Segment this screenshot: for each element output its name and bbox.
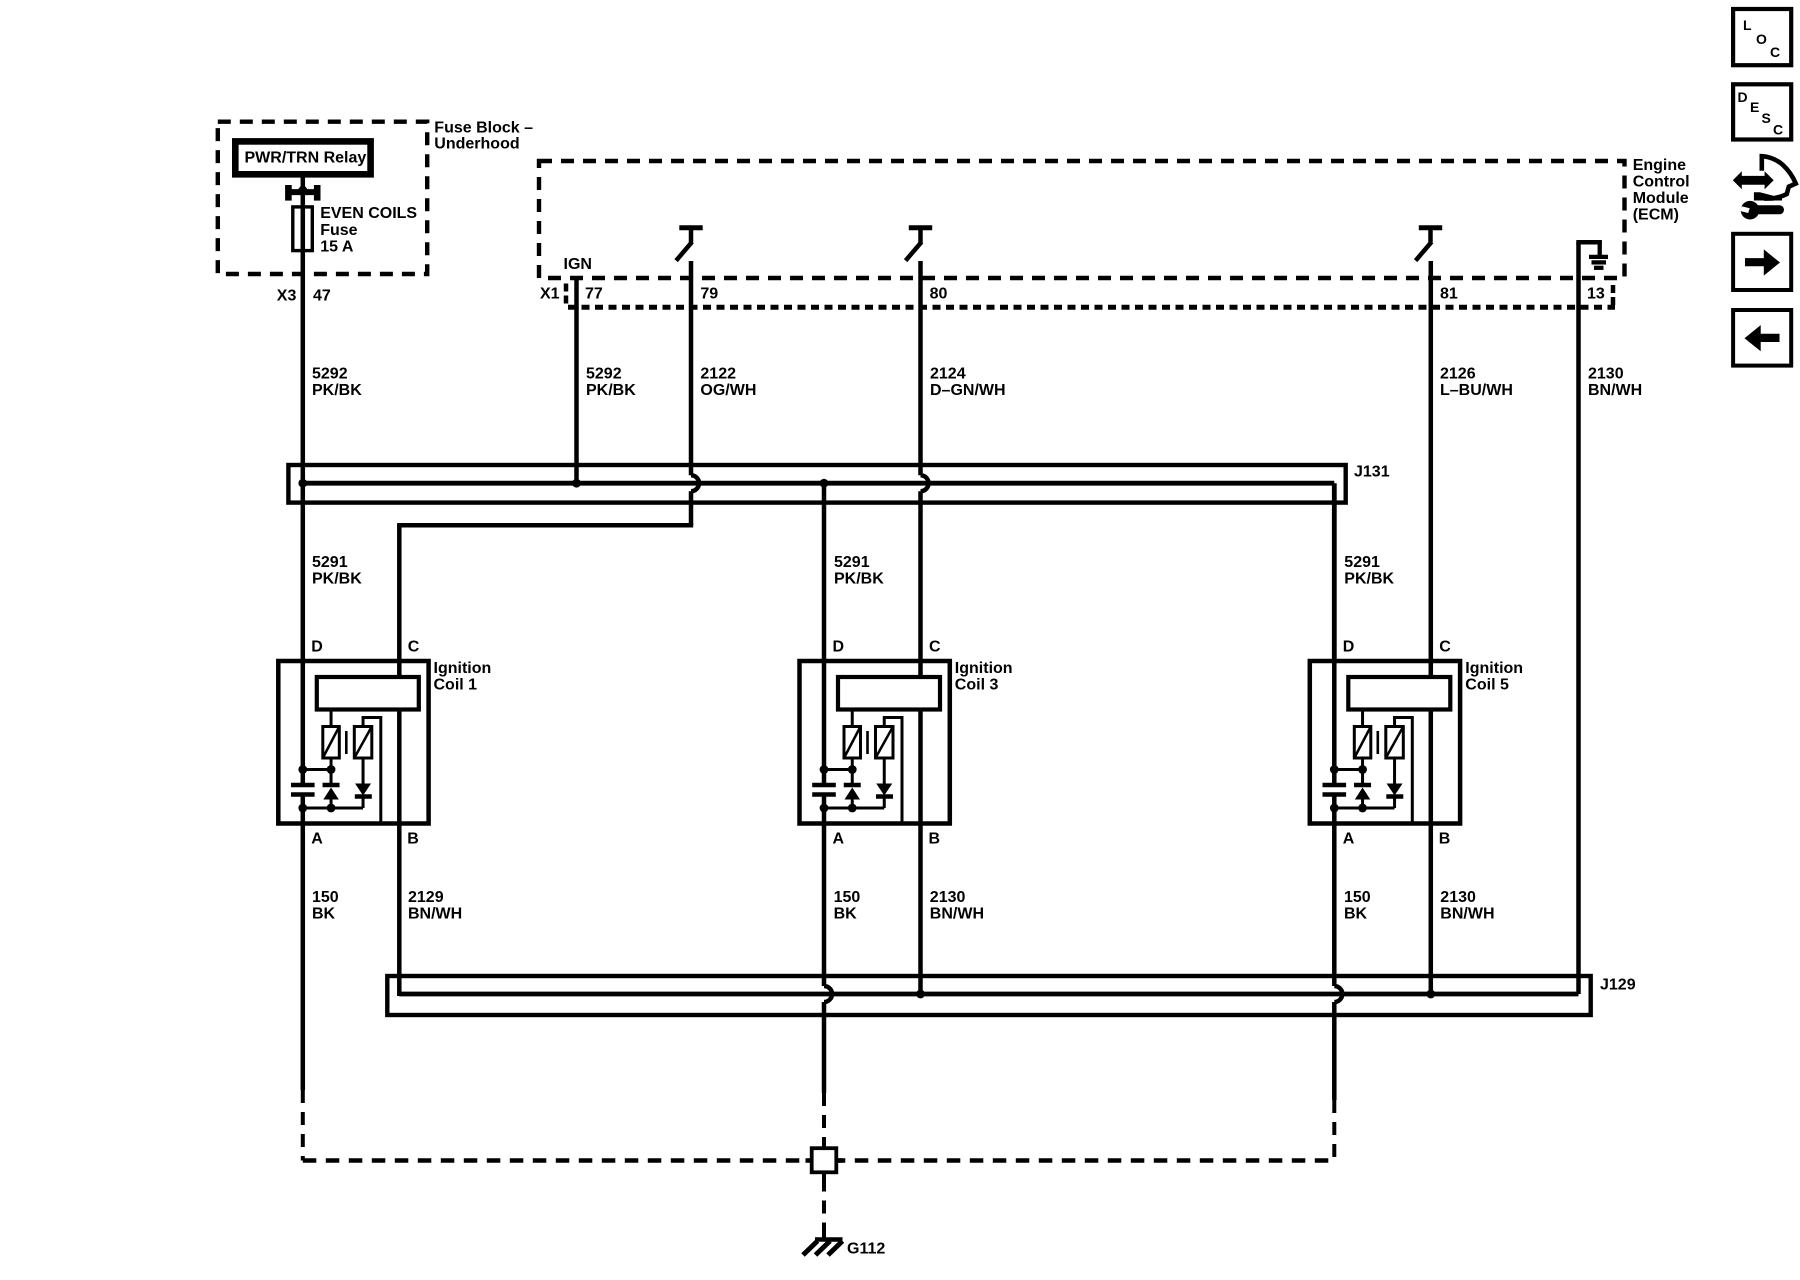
svg-text:BK: BK bbox=[834, 906, 858, 923]
svg-text:5292: 5292 bbox=[312, 366, 348, 383]
icon DESC button bbox=[1733, 84, 1791, 139]
svg-text:C: C bbox=[1773, 122, 1783, 138]
svg-text:5291: 5291 bbox=[1344, 554, 1380, 571]
svg-text:S: S bbox=[1762, 110, 1771, 126]
svg-text:5291: 5291 bbox=[834, 554, 870, 571]
svg-text:80: 80 bbox=[930, 286, 948, 303]
ignition coil 5 bbox=[1310, 639, 1460, 848]
wire 2130 BN/WH ECM pin 13 to splice J129 bbox=[1576, 278, 1581, 994]
svg-text:PK/BK: PK/BK bbox=[312, 571, 362, 588]
wire 5292 PK/BK ECM pin 77 to splice J131 bbox=[574, 278, 579, 483]
fuse EVEN COILS 15A bbox=[293, 207, 313, 251]
svg-text:2126: 2126 bbox=[1440, 366, 1476, 383]
svg-text:Fuse: Fuse bbox=[320, 222, 357, 239]
svg-text:13: 13 bbox=[1587, 286, 1605, 303]
wire 2126 L-BU/WH ECM pin 81 to coil 5 pin C bbox=[1429, 261, 1434, 677]
svg-text:IGN: IGN bbox=[564, 256, 592, 273]
svg-text:150: 150 bbox=[1344, 889, 1371, 906]
splice pack J131 bbox=[288, 465, 1345, 503]
icon back arrow button bbox=[1733, 310, 1791, 366]
wire 2124 D-GN/WH ECM pin 80 to coil 3 pin C bbox=[921, 261, 929, 677]
connector X1 left terminator bbox=[564, 284, 569, 304]
svg-text:Module: Module bbox=[1633, 190, 1689, 207]
svg-text:BN/WH: BN/WH bbox=[1440, 906, 1494, 923]
svg-text:2130: 2130 bbox=[1440, 889, 1476, 906]
svg-text:81: 81 bbox=[1440, 286, 1458, 303]
svg-text:Ignition: Ignition bbox=[434, 660, 492, 677]
relay K PWR/TRN Relay box bbox=[235, 141, 370, 174]
svg-text:OG/WH: OG/WH bbox=[700, 382, 756, 399]
wire 2122 OG/WH ECM pin 79 to coil 1 pin C bbox=[397, 261, 699, 677]
svg-text:BN/WH: BN/WH bbox=[1588, 382, 1642, 399]
wire 2129 BN/WH coil 1 pin B to splice J129 bbox=[397, 824, 402, 997]
svg-text:5292: 5292 bbox=[586, 366, 622, 383]
svg-text:Coil 3: Coil 3 bbox=[955, 677, 999, 694]
svg-text:BN/WH: BN/WH bbox=[930, 906, 984, 923]
svg-text:15 A: 15 A bbox=[320, 238, 354, 255]
svg-text:X3: X3 bbox=[277, 288, 297, 305]
connector terminal symbol bbox=[288, 184, 317, 201]
wire dashed ground run coil1 bbox=[301, 1090, 305, 1161]
svg-text:L–BU/WH: L–BU/WH bbox=[1440, 382, 1513, 399]
wire 150 BK coil 5 pin A bbox=[1334, 824, 1342, 1101]
svg-text:2124: 2124 bbox=[930, 366, 966, 383]
svg-text:(ECM): (ECM) bbox=[1633, 206, 1679, 223]
svg-text:Coil 5: Coil 5 bbox=[1465, 677, 1509, 694]
svg-text:PK/BK: PK/BK bbox=[1344, 571, 1394, 588]
engine control module ECM dashed box bbox=[539, 161, 1625, 278]
svg-text:D–GN/WH: D–GN/WH bbox=[930, 382, 1006, 399]
wire 150 BK coil 3 pin A bbox=[824, 824, 832, 1094]
svg-text:150: 150 bbox=[834, 889, 861, 906]
svg-text:EVEN COILS: EVEN COILS bbox=[320, 205, 417, 222]
svg-text:X1: X1 bbox=[540, 286, 560, 303]
ECM driver for pin 80 bbox=[906, 228, 933, 261]
wire 150 BK coil 1 pin A bbox=[301, 824, 306, 1091]
svg-text:150: 150 bbox=[312, 889, 339, 906]
svg-text:Underhood: Underhood bbox=[434, 136, 519, 153]
svg-text:Ignition: Ignition bbox=[955, 660, 1013, 677]
wire dashed ground bus horizontal bbox=[303, 1158, 1335, 1163]
svg-text:5291: 5291 bbox=[312, 554, 348, 571]
svg-text:O: O bbox=[1756, 31, 1767, 47]
svg-text:79: 79 bbox=[700, 286, 718, 303]
svg-text:BK: BK bbox=[312, 906, 336, 923]
svg-text:2130: 2130 bbox=[930, 889, 966, 906]
wire dashed ground run coil3 bbox=[822, 1093, 826, 1142]
svg-text:2130: 2130 bbox=[1588, 366, 1624, 383]
svg-text:Fuse Block –: Fuse Block – bbox=[434, 119, 533, 136]
svg-text:PK/BK: PK/BK bbox=[586, 382, 636, 399]
svg-text:D: D bbox=[1738, 89, 1748, 105]
svg-text:BK: BK bbox=[1344, 906, 1368, 923]
svg-text:2129: 2129 bbox=[408, 889, 444, 906]
splice square S bbox=[806, 1142, 843, 1179]
svg-text:C: C bbox=[1770, 44, 1780, 60]
ECM driver for pin 81 bbox=[1416, 228, 1443, 261]
svg-text:Ignition: Ignition bbox=[1465, 660, 1523, 677]
icon LOC button bbox=[1733, 9, 1791, 65]
connector X1 row dotted line bbox=[568, 305, 1615, 310]
svg-text:Control: Control bbox=[1633, 174, 1690, 191]
ignition coil 1 bbox=[278, 639, 428, 848]
fuse block underhood dashed box bbox=[218, 122, 427, 274]
ground G112 chassis symbol bbox=[803, 1240, 843, 1256]
svg-text:E: E bbox=[1750, 99, 1759, 115]
svg-text:Engine: Engine bbox=[1633, 157, 1686, 174]
ECM driver for pin 79 bbox=[676, 228, 703, 261]
svg-text:47: 47 bbox=[313, 288, 331, 305]
svg-text:2122: 2122 bbox=[700, 366, 736, 383]
ignition coil 3 bbox=[800, 639, 950, 848]
splice pack J129 bbox=[387, 976, 1590, 1015]
svg-text:77: 77 bbox=[585, 286, 603, 303]
wire 5291 PK/BK splice J131 to coil 5 pin D bbox=[1332, 483, 1337, 661]
ECM internal ground symbol at pin 13 bbox=[1576, 242, 1608, 278]
svg-text:G112: G112 bbox=[847, 1241, 885, 1258]
svg-text:PWR/TRN Relay: PWR/TRN Relay bbox=[245, 149, 367, 166]
wire 5291 PK/BK splice J131 to coil 3 pin D bbox=[822, 483, 827, 661]
connector X1 right terminator bbox=[1611, 285, 1616, 309]
wire 2130 BN/WH coil 3 pin B to splice J129 bbox=[918, 824, 923, 995]
svg-text:L: L bbox=[1743, 17, 1752, 33]
wire dashed to ground G112 bbox=[822, 1179, 826, 1229]
svg-text:J131: J131 bbox=[1354, 464, 1390, 481]
icon forward arrow button bbox=[1733, 234, 1791, 290]
wire 5292 PK/BK from fuse to splice J131 and on to coil 1 pin D bbox=[301, 251, 306, 661]
wire relay to fuse bbox=[301, 178, 306, 207]
svg-text:PK/BK: PK/BK bbox=[834, 571, 884, 588]
svg-text:Coil 1: Coil 1 bbox=[434, 677, 478, 694]
svg-text:J129: J129 bbox=[1600, 977, 1636, 994]
svg-text:PK/BK: PK/BK bbox=[312, 382, 362, 399]
svg-text:BN/WH: BN/WH bbox=[408, 906, 462, 923]
wire 2130 BN/WH coil 5 pin B to splice J129 bbox=[1429, 824, 1434, 995]
icon wiring pointer with wrench bbox=[1733, 156, 1796, 219]
wire dashed ground run coil5 bbox=[1332, 1100, 1336, 1161]
